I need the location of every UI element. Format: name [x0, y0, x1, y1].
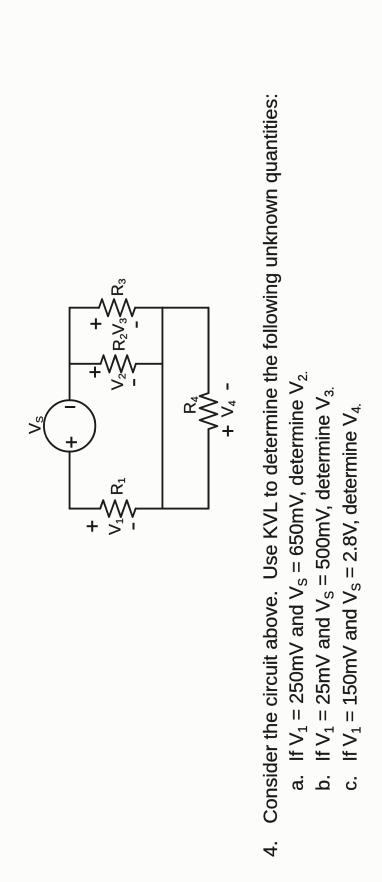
resistor R2 [101, 355, 136, 372]
svg-text:If V1 = 25mV and VS = 500mV, d: If V1 = 25mV and VS = 500mV, determine V… [313, 387, 337, 762]
wire R2 branch upper [70, 363, 101, 365]
wire top rail left of source [69, 452, 71, 509]
wire bottom rail left [208, 429, 210, 509]
minus of V4 [227, 383, 229, 389]
wire left rail lower [136, 508, 209, 510]
wire right rail lower [135, 307, 208, 309]
source minus sign [65, 406, 75, 408]
svg-text:4.: 4. [260, 841, 282, 857]
minus of V2 [133, 379, 135, 386]
plus of V4 [222, 426, 233, 437]
plus of V2 [90, 367, 101, 378]
svg-text:If V1 = 250mV and VS = 650mV,: If V1 = 250mV and VS = 650mV, determine … [286, 371, 310, 762]
svg-text:Consider the circuit above. U: Consider the circuit above. Use KVL to d… [260, 93, 282, 823]
svg-text:b.: b. [313, 774, 335, 790]
svg-text:If V1 = 150mV and VS = 2.8V, d: If V1 = 150mV and VS = 2.8V, determine V… [339, 404, 363, 762]
minus of V1 [133, 523, 135, 530]
source plus sign [66, 437, 77, 448]
wire right rail upper [70, 307, 99, 309]
voltage source Vs [44, 400, 95, 451]
wire left rail upper [70, 508, 101, 510]
minus of V3 [136, 321, 138, 327]
wire middle rail [161, 308, 163, 509]
wire top rail right of source [69, 308, 71, 401]
wire bottom rail right [208, 308, 210, 393]
plus of V3 [90, 318, 101, 329]
resistor R3 [99, 299, 135, 316]
svg-text:c.: c. [339, 776, 361, 791]
resistor R4 [200, 393, 218, 429]
wire R2 branch lower [136, 363, 163, 365]
resistor R1 [100, 500, 135, 517]
plus of V1 [87, 521, 98, 532]
svg-text:a.: a. [286, 774, 308, 790]
